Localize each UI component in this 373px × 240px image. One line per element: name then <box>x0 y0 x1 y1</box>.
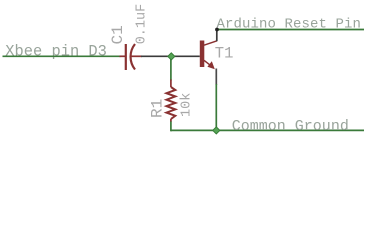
svg-text:0.1uF: 0.1uF <box>134 4 149 45</box>
wire: emitter to ground rail <box>215 84 217 130</box>
wire: Common Ground rail <box>170 129 364 131</box>
svg-text:R1: R1 <box>148 99 166 118</box>
wire: capacitor to transistor base <box>141 55 200 57</box>
wire: resistor bottom to ground rail (L corner) <box>171 122 172 131</box>
svg-text:Xbee pin D3: Xbee pin D3 <box>5 43 107 61</box>
svg-text:C1: C1 <box>109 25 127 44</box>
svg-text:Arduino Reset Pin: Arduino Reset Pin <box>217 16 362 32</box>
wire: Arduino Reset Pin net horizontal <box>216 29 364 31</box>
resistor R1 zigzag <box>167 87 176 119</box>
resistor R1 bottom lead <box>170 119 172 122</box>
node: wire end dot at collector/reset junction <box>215 28 219 32</box>
node junction on ground rail (green diamond) <box>213 127 220 134</box>
wire: collector pin up to Arduino Reset Pin net <box>216 30 218 42</box>
capacitor C1 <box>126 44 135 70</box>
transistor T1 collector diagonal <box>204 41 217 45</box>
transistor T1 base bar <box>200 41 205 68</box>
svg-text:T1: T1 <box>215 44 234 62</box>
transistor T1 emitter diagonal with arrow <box>204 60 211 66</box>
wire: junction down to resistor R1 top <box>170 56 172 80</box>
svg-text:Common Ground: Common Ground <box>232 118 349 135</box>
svg-text:10k: 10k <box>179 93 194 117</box>
capacitor C1 left lead <box>120 55 126 57</box>
wire: Xbee pin D3 net, horizontal into capacitor <box>3 55 121 57</box>
wire: emitter pin down (dark) <box>215 69 217 86</box>
capacitor C1 right lead <box>131 55 142 57</box>
node junction on Xbee net (green diamond) <box>168 53 175 60</box>
resistor R1 top lead <box>170 80 172 88</box>
